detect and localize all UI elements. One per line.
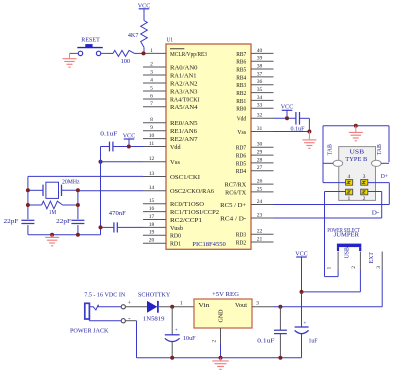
svg-text:RD1: RD1 xyxy=(170,242,181,248)
regulator GND leg xyxy=(212,328,221,358)
svg-text:RC5 / D+: RC5 / D+ xyxy=(220,203,247,209)
node 1M left junction xyxy=(26,203,30,207)
pin 39 (RB6) xyxy=(236,56,273,66)
diode D1 1N5819 xyxy=(147,301,158,313)
pin 18 (Vusb) xyxy=(143,222,183,232)
power VCC (reset pull-up) xyxy=(138,3,151,20)
svg-text:RB0: RB0 xyxy=(236,107,246,113)
ground (USB shield) xyxy=(349,126,363,141)
wire USB pin2 to D- net xyxy=(368,192,382,219)
pin 25 (RC6/TX) xyxy=(225,186,273,196)
wire reset button to ground xyxy=(70,52,79,54)
wire left tab to shell rail xyxy=(323,162,333,164)
svg-text:24: 24 xyxy=(257,199,263,205)
capacitor C1 22pF (left, in rail) xyxy=(21,219,35,225)
pin 28 (RD5) xyxy=(236,157,274,167)
svg-text:1uF: 1uF xyxy=(309,338,319,344)
label pin 3 (reg out) xyxy=(256,301,259,307)
svg-text:RA2/AN2: RA2/AN2 xyxy=(170,81,198,87)
svg-text:31: 31 xyxy=(257,126,263,132)
svg-text:JUMPER: JUMPER xyxy=(334,233,359,239)
resistor R3 1M xyxy=(28,201,78,209)
capacitor C8 1uF (output) xyxy=(295,321,309,358)
wire button to R2 xyxy=(101,52,113,54)
resistor R1 4K7 xyxy=(141,21,148,54)
pin 23 (RC4 / D-) xyxy=(220,212,273,222)
svg-text:RA5/AN4: RA5/AN4 xyxy=(170,105,198,111)
node crystal right junction xyxy=(76,188,80,192)
svg-text:40: 40 xyxy=(257,48,263,54)
wire crystal right rail xyxy=(77,191,79,235)
wire diode to regulator xyxy=(159,306,194,308)
jumper shunt bar xyxy=(337,244,361,251)
svg-text:RESET: RESET xyxy=(81,38,100,44)
node pin31 ground junction xyxy=(307,130,311,134)
svg-text:RD5: RD5 xyxy=(236,161,247,167)
wire R2 to pin 1 xyxy=(136,52,143,54)
svg-text:39: 39 xyxy=(257,56,263,62)
pin 33 (RB0) xyxy=(236,103,273,113)
wire crystal bottom rail xyxy=(28,234,101,236)
svg-text:RC0/T1OSO: RC0/T1OSO xyxy=(170,202,205,208)
wire USB pin4 to shell/ground xyxy=(323,182,346,184)
svg-text:RC1/T1OSI/CCP2: RC1/T1OSI/CCP2 xyxy=(170,210,219,216)
svg-text:17: 17 xyxy=(149,214,155,220)
pin 40 (RB7) xyxy=(236,48,273,58)
svg-text:GND: GND xyxy=(219,309,225,323)
node ground tap junction xyxy=(50,233,54,237)
svg-text:22pF: 22pF xyxy=(4,219,20,225)
svg-text:12: 12 xyxy=(149,156,155,162)
connector J2 USB TYPE B body xyxy=(339,147,376,201)
svg-text:6: 6 xyxy=(150,93,153,99)
node VCC/pin11 junction xyxy=(127,145,131,149)
node VCC/pin32 junction xyxy=(285,116,289,120)
node 0.1uF output junction xyxy=(278,305,282,309)
svg-text:RC4 / D-: RC4 / D- xyxy=(220,216,246,222)
pin 6 (RA4/T0CKI) xyxy=(143,93,200,103)
svg-text:30: 30 xyxy=(257,142,263,148)
node regulator gnd junction xyxy=(219,356,223,360)
node pin1/4K7 junction xyxy=(142,51,146,55)
svg-text:Vout: Vout xyxy=(235,303,247,309)
wire OSC2 pin 14 xyxy=(78,190,143,192)
svg-text:2: 2 xyxy=(351,266,357,269)
USB pin 3 pad xyxy=(361,174,368,185)
wire jack to diode xyxy=(125,306,147,308)
pin 5 (RA3/AN3) xyxy=(143,85,198,95)
svg-text:1M: 1M xyxy=(49,210,57,216)
connector J1 power jack barrel xyxy=(85,303,90,319)
pin 9 (RE1/AN6) xyxy=(143,125,197,135)
svg-text:37: 37 xyxy=(257,71,263,77)
svg-text:13: 13 xyxy=(149,171,155,177)
svg-text:D-: D- xyxy=(372,211,380,217)
svg-text:USB: USB xyxy=(345,247,351,258)
power VCC (pin 11) xyxy=(123,134,136,147)
svg-text:8: 8 xyxy=(150,117,153,123)
pin 26 (RC7/RX) xyxy=(225,179,274,189)
pin 3 (RA1/AN1) xyxy=(143,69,197,79)
node 0.1uF bottom junction xyxy=(278,356,282,360)
svg-text:3: 3 xyxy=(376,266,382,269)
power VCC (main +5V) xyxy=(295,251,308,292)
svg-text:RA1/AN1: RA1/AN1 xyxy=(170,73,197,79)
label JUMPER xyxy=(334,233,359,239)
pin 16 (RC1/T1OSI/CCP2) xyxy=(143,206,219,216)
label 4K7 xyxy=(128,33,138,39)
svg-text:2: 2 xyxy=(150,61,153,67)
svg-text:RD4: RD4 xyxy=(236,169,247,175)
power VCC (pin 32) xyxy=(281,105,294,119)
wire pin 31 Vss xyxy=(274,131,310,133)
crystal X1 20MHz xyxy=(28,182,78,198)
wire pin 12 Vss to rail xyxy=(101,161,144,163)
label pin 1 (reg in) xyxy=(180,300,183,306)
wire crystal left rail xyxy=(27,176,29,234)
pin 13 (OSC1/CKI) xyxy=(143,171,200,181)
wire jack negative to ground rail xyxy=(125,321,136,358)
pin 15 (RC0/T1OSO) xyxy=(143,198,205,208)
pin 24 (RC5 / D+) xyxy=(220,199,273,209)
svg-text:RA3/AN3: RA3/AN3 xyxy=(170,89,198,95)
label D- xyxy=(372,211,380,217)
pin 2 (RA0/AN0) xyxy=(143,61,198,71)
label 10uF xyxy=(183,336,196,342)
svg-text:7.5 - 16 VDC IN: 7.5 - 16 VDC IN xyxy=(84,292,126,298)
pin 4 (RA2/AN2) xyxy=(143,77,198,87)
label +5V REG xyxy=(212,292,239,298)
svg-text:18: 18 xyxy=(149,222,155,228)
svg-text:4: 4 xyxy=(348,174,351,180)
svg-text:27: 27 xyxy=(257,165,263,171)
label 7.5 - 16 VDC IN xyxy=(84,292,126,298)
svg-text:TAB: TAB xyxy=(328,144,334,155)
svg-text:RA4/T0CKI: RA4/T0CKI xyxy=(170,97,200,103)
pin 22 (RD3) xyxy=(236,229,274,239)
svg-text:RC2/CCP1: RC2/CCP1 xyxy=(170,218,202,224)
PIC18F4550 part label xyxy=(192,242,226,248)
pin 14 (OSC2/CKO/RA6) xyxy=(143,185,214,195)
svg-text:0.1uF: 0.1uF xyxy=(257,338,275,344)
U1 designator label xyxy=(167,37,174,44)
svg-text:22pF: 22pF xyxy=(56,219,72,225)
label 20MHz xyxy=(62,180,80,186)
svg-text:1: 1 xyxy=(180,300,183,306)
USB right tab xyxy=(372,160,382,166)
pin 38 (RB5) xyxy=(236,63,273,73)
wire pin 32 Vdd xyxy=(274,117,296,119)
svg-text:4K7: 4K7 xyxy=(128,33,138,39)
svg-text:470nF: 470nF xyxy=(109,211,127,217)
svg-text:RB3: RB3 xyxy=(236,83,246,89)
svg-text:+: + xyxy=(175,328,178,334)
jumper pin 2 xyxy=(351,252,360,292)
svg-text:11: 11 xyxy=(149,141,155,147)
label 0.1uF (C5) xyxy=(257,338,275,344)
node 470nF rail junction xyxy=(99,225,103,229)
svg-text:23: 23 xyxy=(257,212,263,218)
svg-text:21: 21 xyxy=(257,236,263,242)
wire regulator output xyxy=(252,306,382,308)
label POWER JACK xyxy=(70,328,109,334)
svg-text:10: 10 xyxy=(149,133,155,139)
svg-text:35: 35 xyxy=(257,87,263,93)
capacitor C6 470nF (Vusb) xyxy=(114,222,117,232)
label 22pF (C2) xyxy=(56,219,72,225)
wire USB shell top loop xyxy=(323,126,389,183)
jumper pin 3 xyxy=(376,252,382,307)
pin 7 (RA5/AN4) xyxy=(143,101,198,111)
svg-text:3: 3 xyxy=(256,301,259,307)
svg-text:+: + xyxy=(303,321,306,327)
label 1uF xyxy=(309,338,319,344)
node VCC/jumper junction xyxy=(300,290,304,294)
svg-text:5: 5 xyxy=(150,85,153,91)
label USB (jumper) xyxy=(345,247,351,258)
svg-text:+5V REG: +5V REG xyxy=(212,292,239,298)
label EXT (jumper) xyxy=(369,252,375,264)
svg-text:1: 1 xyxy=(150,48,153,54)
wire ground rail xyxy=(137,357,302,359)
label RESET xyxy=(81,38,100,44)
ground (crystal) xyxy=(45,235,59,246)
node crystal left junction xyxy=(26,188,30,192)
op-amp U1 microcontroller PIC18F4550 body xyxy=(166,44,251,249)
svg-text:RD3: RD3 xyxy=(236,233,247,239)
USB pin 1 pad xyxy=(346,189,353,202)
wire C4 to ground leg xyxy=(300,118,310,131)
svg-text:28: 28 xyxy=(257,157,263,163)
jumper pin 1 xyxy=(327,252,339,277)
svg-text:RE2/AN7: RE2/AN7 xyxy=(170,137,198,143)
svg-text:26: 26 xyxy=(257,179,263,185)
pin 21 (RD2) xyxy=(236,236,274,246)
svg-text:MCLR/Vpp/RE3: MCLR/Vpp/RE3 xyxy=(170,52,207,58)
svg-text:OSC2/CKO/RA6: OSC2/CKO/RA6 xyxy=(170,189,214,195)
wire jumper pin2 to VCC xyxy=(302,291,361,293)
svg-text:1: 1 xyxy=(348,196,351,202)
svg-text:32: 32 xyxy=(257,113,263,119)
pin 20 (RD1) xyxy=(143,238,181,248)
pin 35 (RB2) xyxy=(236,87,273,97)
svg-text:RB1: RB1 xyxy=(236,99,246,105)
wire OSC1 pin 13 xyxy=(28,175,143,177)
wire USB pin1 VBUS down xyxy=(325,192,346,277)
node USB shield ground junction xyxy=(354,124,358,128)
label TAB (left) xyxy=(328,144,334,155)
jack negative terminal xyxy=(121,314,131,323)
USB pin 4 pad xyxy=(346,174,353,185)
wire pin 11 Vdd xyxy=(101,146,144,148)
label 1M xyxy=(49,210,57,216)
pin 8 (RE0/AN5) xyxy=(143,117,198,127)
svg-text:EXT: EXT xyxy=(369,252,375,264)
node 1M right junction xyxy=(76,203,80,207)
pin 37 (RB4) xyxy=(236,71,273,81)
svg-text:1: 1 xyxy=(327,267,333,270)
svg-text:Vdd: Vdd xyxy=(170,145,181,151)
svg-text:RC7/RX: RC7/RX xyxy=(225,183,247,189)
pin 30 (RD7) xyxy=(236,142,274,152)
svg-text:Vss: Vss xyxy=(170,160,181,166)
label POWER SELECT xyxy=(327,228,360,234)
label 1N5819 xyxy=(143,316,165,322)
svg-text:Vdd: Vdd xyxy=(237,117,247,123)
wire USB pin3 to D+ net xyxy=(368,183,390,205)
label SCHOTTKY xyxy=(138,292,171,298)
capacitor C7 10uF (input) xyxy=(165,307,180,358)
svg-text:33: 33 xyxy=(257,103,263,109)
USB left tab xyxy=(333,160,343,166)
svg-text:RE0/AN5: RE0/AN5 xyxy=(170,121,198,127)
resistor R2 100 xyxy=(113,50,136,56)
wire D- to pin 23 xyxy=(274,217,382,219)
pin 12 (Vss) xyxy=(143,156,181,166)
capacitor C4 0.1uF (pin32) xyxy=(296,112,300,125)
svg-text:20MHz: 20MHz xyxy=(62,180,80,186)
node pin12 rail junction xyxy=(99,160,103,164)
svg-text:20: 20 xyxy=(149,238,155,244)
svg-text:D+: D+ xyxy=(381,174,389,180)
svg-text:3: 3 xyxy=(363,174,366,180)
svg-text:2: 2 xyxy=(212,340,218,343)
svg-text:15: 15 xyxy=(149,198,155,204)
svg-text:TYPE B: TYPE B xyxy=(345,157,367,163)
label 0.1uF (C4) xyxy=(291,126,306,132)
svg-text:TAB: TAB xyxy=(377,144,383,155)
svg-text:22: 22 xyxy=(257,229,263,235)
wire jack sleeve xyxy=(89,319,121,321)
wire VCC down to +5V line xyxy=(301,292,303,327)
pin 34 (RB1) xyxy=(236,95,273,105)
label TAB (right) xyxy=(377,144,383,155)
label 470nF xyxy=(109,211,127,217)
svg-text:RD0: RD0 xyxy=(170,234,181,240)
pin 19 (RD0) xyxy=(143,230,181,240)
label 100 xyxy=(121,59,131,65)
svg-text:19: 19 xyxy=(149,230,155,236)
capacitor C2 22pF (right, in rail) xyxy=(71,219,85,225)
svg-text:14: 14 xyxy=(149,185,155,191)
svg-text:2: 2 xyxy=(363,196,366,202)
ground (reset) xyxy=(63,53,77,67)
svg-text:RD7: RD7 xyxy=(236,146,247,152)
svg-text:RB7: RB7 xyxy=(236,52,246,58)
svg-text:RB5: RB5 xyxy=(236,67,246,73)
switch SW1 reset pushbutton xyxy=(77,44,103,56)
svg-text:16: 16 xyxy=(149,206,155,212)
pin 32 (Vdd) xyxy=(237,113,274,123)
wire D+ to pin 24 xyxy=(274,204,390,206)
capacitor C5 0.1uF (output) xyxy=(274,307,287,358)
svg-text:38: 38 xyxy=(257,63,263,69)
label Vout xyxy=(235,303,247,309)
regulator U2 +5V body xyxy=(194,299,252,328)
pin 36 (RB3) xyxy=(236,79,273,89)
svg-text:25: 25 xyxy=(257,186,263,192)
USB pin 2 pad xyxy=(361,189,368,202)
label GND (rotated) xyxy=(219,309,225,323)
svg-text:RD6: RD6 xyxy=(236,154,247,160)
wire right tab to shell rail xyxy=(381,162,389,164)
svg-text:RB2: RB2 xyxy=(236,91,246,97)
svg-text:1N5819: 1N5819 xyxy=(143,316,165,322)
svg-text:9: 9 xyxy=(150,125,153,131)
svg-text:RB6: RB6 xyxy=(236,60,246,66)
pin 17 (RC2/CCP1) xyxy=(143,214,202,224)
svg-text:3: 3 xyxy=(150,69,153,75)
svg-text:OSC1/CKI: OSC1/CKI xyxy=(170,175,200,181)
label 22pF (C1) xyxy=(4,219,20,225)
svg-text:RC6/TX: RC6/TX xyxy=(225,190,247,196)
svg-text:Vin: Vin xyxy=(198,303,209,309)
label 0.1uF (C3) xyxy=(100,131,118,137)
pin 31 (Vss) xyxy=(237,126,273,136)
jack center pin contact xyxy=(89,305,121,310)
capacitor C3 0.1uF (Vdd decoupling) xyxy=(110,142,113,152)
label USB TYPE B xyxy=(345,149,367,163)
ground (regulator) xyxy=(212,358,229,370)
svg-text:RB4: RB4 xyxy=(236,75,246,81)
svg-text:POWER JACK: POWER JACK xyxy=(70,328,109,334)
svg-text:29: 29 xyxy=(257,150,263,156)
svg-text:RA0/AN0: RA0/AN0 xyxy=(170,65,198,71)
svg-text:0.1uF: 0.1uF xyxy=(100,131,118,137)
jack positive terminal xyxy=(121,301,131,309)
svg-text:34: 34 xyxy=(257,95,263,101)
svg-text:7: 7 xyxy=(150,101,153,107)
node right cap bottom junction xyxy=(76,233,80,237)
svg-text:U1: U1 xyxy=(167,37,174,44)
svg-text:RE1/AN6: RE1/AN6 xyxy=(170,129,197,135)
pin 10 (RE2/AN7) xyxy=(143,133,198,143)
svg-text:USB: USB xyxy=(350,149,365,155)
pin 27 (RD4) xyxy=(236,165,274,175)
svg-text:Vusb: Vusb xyxy=(170,226,183,232)
ground (pin 31) xyxy=(302,132,316,149)
svg-text:PIC18F4550: PIC18F4550 xyxy=(192,242,226,248)
pin 11 (Vdd) xyxy=(143,141,181,151)
node 10uF bottom junction xyxy=(170,356,174,360)
pin 1 (MCLR/Vpp/RE3) xyxy=(143,48,207,58)
pin 29 (RD6) xyxy=(236,150,274,160)
label D+ xyxy=(381,174,389,180)
svg-text:10uF: 10uF xyxy=(183,336,196,342)
node 10uF junction xyxy=(170,305,174,309)
label Vin xyxy=(198,303,209,309)
svg-text:100: 100 xyxy=(121,59,131,65)
wire 470nF to pin 18 Vusb xyxy=(101,226,144,228)
svg-text:Vss: Vss xyxy=(237,130,247,136)
svg-text:4: 4 xyxy=(150,77,153,83)
svg-text:SCHOTTKY: SCHOTTKY xyxy=(138,292,171,298)
svg-text:RD2: RD2 xyxy=(236,240,247,246)
svg-text:36: 36 xyxy=(257,79,263,85)
wire left decoupling rail xyxy=(100,147,102,235)
